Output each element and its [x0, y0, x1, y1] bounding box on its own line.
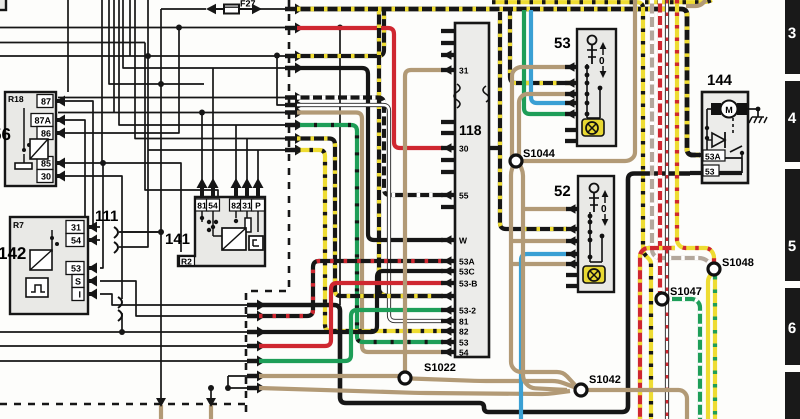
switch 52 box: [578, 176, 614, 292]
wire R7-S east: [100, 281, 251, 316]
switch 52 pin stub y241: [566, 239, 578, 243]
unit 118 pin arrow y296: [443, 291, 452, 301]
wire yellow/black top rail: [492, 2, 651, 419]
relay R2 pin 54: [207, 178, 220, 211]
switch 53 pin stub y94: [565, 92, 577, 96]
junction x211: [208, 385, 214, 391]
relay R2 pin P: [252, 178, 265, 211]
wire column x145: [145, 43, 218, 198]
switch 52 contact column: [588, 212, 605, 262]
harness boundary dashed bottom: [0, 403, 246, 406]
connector pair lower-left arc1: [118, 297, 122, 308]
svg-text:P: P: [255, 201, 261, 211]
connector arrow tan: [285, 107, 304, 118]
wire green feed: [119, 0, 291, 125]
unit 118 pin stub y310: [441, 308, 455, 312]
switch 52 pin arrow y209: [567, 204, 576, 214]
switch 52 lamp: [583, 266, 605, 283]
wire yb feed: [135, 0, 291, 139]
relay 56 pin 85: [37, 157, 65, 170]
motor 144 park switch: [730, 146, 744, 158]
wire 84 rail: [109, 0, 204, 84]
wire tan from pin31: [405, 70, 443, 371]
svg-text:82: 82: [459, 327, 469, 337]
wire yellow/black top exit: [645, 0, 712, 2]
svg-text:53-B: 53-B: [459, 279, 477, 289]
connector 111 arc upper: [114, 227, 118, 238]
unit 118 pin label 53-B: [459, 279, 477, 289]
svg-text:53A: 53A: [705, 152, 721, 162]
unit 118 pin stub y70: [441, 68, 455, 72]
current track number 3: [788, 25, 796, 42]
wire fuse to connector: [253, 8, 291, 10]
arrow into sleeve left: [156, 398, 166, 407]
switch 52 pin stub y209: [566, 207, 578, 211]
node S1042: [575, 374, 621, 396]
connector arrow green: [285, 120, 304, 131]
wire 97 rail: [58, 97, 291, 99]
sleeve tan right: [209, 405, 213, 419]
unit 118 pin arrow y310: [443, 305, 452, 315]
switch 52 pin stub y286: [566, 284, 578, 288]
unit 118 pin stub y133: [441, 131, 455, 135]
wire yellow/green from S1048: [713, 276, 717, 419]
wire white to pin81: [297, 105, 443, 321]
switch 52 pin stub y229: [566, 227, 578, 231]
switch 53 pin arrow y83: [566, 78, 575, 88]
connector arrow red2: [247, 341, 266, 352]
wire black to pinW: [297, 68, 443, 240]
wire tan bracket: [227, 376, 229, 388]
unit 118 pin label 55: [459, 191, 469, 201]
svg-text:6: 6: [788, 320, 796, 337]
wire tan branch 52 pin1: [523, 207, 567, 211]
wire R18-30 down: [64, 176, 122, 299]
relay 56 pin 87A: [31, 114, 65, 127]
motor 144 M symbol: [721, 101, 738, 118]
wire tan branch 52 pin2: [511, 239, 567, 243]
wire black lower loop: [259, 174, 690, 413]
relay R2 pin 82: [230, 178, 243, 211]
wire drop to sleeve x211: [210, 388, 212, 399]
switch 53 pin arrow y103: [566, 98, 575, 108]
unit 118 pin stub y331: [441, 329, 455, 333]
svg-text:31: 31: [71, 223, 81, 233]
switch 53 lamp: [582, 119, 604, 136]
junction rail56/x277: [274, 53, 280, 59]
svg-text:54: 54: [71, 236, 81, 246]
wire tan 52 feed: [511, 262, 567, 266]
relay 56 box: [5, 92, 56, 186]
switch 53 pin stub y67: [565, 65, 577, 69]
wire x103 to R7-53: [100, 163, 103, 268]
relay R18 designator: [8, 94, 24, 104]
switch 52 selector arrows: [601, 190, 608, 226]
switch 52 pin arrow y241: [567, 236, 576, 246]
unit 118 pin arrow y321: [443, 316, 452, 326]
harness boundary dashed top: [246, 0, 289, 419]
switch 53 box: [577, 29, 616, 146]
svg-text:S1048: S1048: [722, 257, 754, 269]
wire black/yellow 52 feed: [500, 12, 567, 229]
wire black/yellow to pin-mid: [297, 139, 443, 297]
unit 118 right stub y148: [489, 146, 500, 150]
node S1048: [708, 257, 754, 275]
wire column x130: [129, 0, 131, 56]
switch 53 pin stub y114: [565, 112, 577, 116]
wire R2-81 riser: [201, 113, 203, 183]
switch 52 pin stub y275: [566, 273, 578, 277]
wire red to pin30: [297, 28, 443, 148]
wire tan lower to S1042: [259, 388, 570, 394]
unit 118 pin stub y55: [441, 53, 455, 57]
component 53 label: [554, 35, 571, 52]
wire column x102: [101, 0, 103, 163]
unit 118 squiggle right: [483, 86, 489, 102]
switch 53 pin stub y83: [565, 81, 577, 85]
motor 144 pin 53 wire: [690, 158, 742, 173]
current track bar: [785, 0, 800, 419]
wire R7-I east: [100, 294, 251, 305]
connector pair lower-left arc2: [118, 310, 122, 321]
svg-text:R2: R2: [181, 257, 192, 267]
unit 118 pin stub y283: [441, 281, 455, 285]
wire 332 rail: [0, 331, 251, 333]
wire tan S1044 to 53 pin3: [519, 94, 570, 158]
wire black to pin53C: [259, 271, 443, 332]
junction 85 node: [100, 160, 106, 166]
switch 52 pin arrow y264: [567, 259, 576, 269]
unit 118 pin stub y271: [441, 269, 455, 273]
svg-text:4: 4: [788, 110, 797, 127]
wire fuse feed: [161, 8, 206, 10]
connector arrow green2: [247, 356, 266, 367]
switch 52 pin stub y264: [566, 262, 578, 266]
wire green/black to pin53: [297, 125, 443, 342]
connector arrow yb3: [285, 133, 304, 144]
wire yellow/red branch to bottom: [640, 248, 675, 419]
node S1047: [656, 286, 702, 305]
svg-text:56: 56: [0, 125, 11, 144]
wire x122 lower: [121, 313, 123, 332]
unit 118 pin label 31: [459, 66, 469, 76]
ground symbol 144: [749, 109, 767, 123]
wire tan to pin54: [297, 113, 443, 353]
wire tan2 feed: [228, 387, 251, 389]
unit 118 pin arrow y331: [443, 326, 452, 336]
fuse left plug arrow: [206, 4, 224, 14]
switch 53 pin stub y130: [565, 128, 577, 132]
svg-text:S1044: S1044: [523, 148, 556, 160]
wire 361 rail: [0, 360, 251, 362]
wire R2-54 riser: [212, 68, 214, 182]
unit 118 pin stub y296: [441, 294, 455, 298]
wire blue to 53 pin4: [531, 10, 570, 103]
wire white feed: [277, 56, 291, 106]
wire R2-P riser: [257, 150, 259, 182]
unit 118 pin arrow y240: [443, 235, 452, 245]
relay 56 pin 86: [37, 127, 65, 140]
junction x161/233: [158, 229, 164, 235]
fuse F27: [224, 5, 239, 14]
wire arc2 riser x148: [123, 0, 148, 247]
wire riser x340: [339, 28, 341, 306]
wire column x114: [113, 0, 115, 113]
unit 118 pin arrow y283: [443, 278, 452, 288]
unit 118 squiggle left: [454, 84, 460, 108]
svg-text:53A: 53A: [459, 257, 475, 267]
svg-text:30: 30: [459, 144, 469, 154]
svg-text:53: 53: [71, 264, 81, 274]
unit 118 pin arrow y342: [443, 337, 452, 347]
svg-text:31: 31: [242, 201, 252, 211]
relay 56 internals: [15, 108, 48, 169]
unit 118 pin stub y195: [441, 193, 455, 197]
wire green to 53 pin5: [524, 10, 570, 114]
connector arrow yellow: [285, 145, 304, 156]
unit 118 pin label 53-2: [459, 306, 476, 316]
svg-text:52: 52: [554, 183, 571, 200]
wire red to pin53-B: [259, 283, 443, 346]
relay 142 pin 31: [66, 221, 97, 234]
relay R2 designator: [180, 257, 195, 267]
component 141 label: [165, 231, 190, 248]
arrow into sleeve right: [206, 398, 216, 407]
sleeve tan left: [159, 405, 163, 419]
wire R18-86 riser: [64, 28, 179, 134]
wire R18-87A to R7-54: [64, 120, 100, 240]
svg-text:0: 0: [601, 204, 607, 215]
svg-text:111: 111: [95, 208, 118, 225]
connector arrow black: [285, 63, 304, 74]
wire R18-87 to R7-31: [64, 101, 100, 227]
svg-text:S1022: S1022: [424, 362, 456, 374]
wire yellow/black riser from 56: [297, 9, 384, 56]
wire tan top exit: [686, 0, 706, 6]
unit 118 pin stub y261: [441, 259, 455, 263]
relay R2 internals: [200, 211, 263, 250]
unit 118 pin arrow y55: [443, 50, 452, 60]
svg-text:R7: R7: [13, 220, 24, 230]
unit 118 pin label 54: [459, 348, 469, 358]
svg-text:31: 31: [459, 66, 469, 76]
wire green to pin53-2: [259, 310, 443, 361]
svg-text:86: 86: [41, 129, 51, 139]
unit 118 pin label 53C: [459, 267, 475, 277]
svg-text:53C: 53C: [459, 267, 475, 277]
control unit 118 label: [459, 122, 482, 138]
unit 118 pin stub y207: [441, 205, 455, 209]
wire grey/white to S1048: [652, 0, 712, 265]
wire tan S1042 east drop: [588, 390, 687, 419]
unit 118 pin arrow y271: [443, 266, 452, 276]
component 56 number: [0, 125, 11, 144]
connector arrow tan1: [247, 371, 266, 382]
switch 53 pin stub y141: [565, 139, 577, 143]
component 142 number: [0, 244, 26, 263]
wire tan S1044 west drop: [511, 166, 575, 385]
switch 52 pin stub y254: [566, 252, 578, 256]
switch 53 pin arrow y94: [566, 89, 575, 99]
unit 118 pin stub y342: [441, 340, 455, 344]
connector arrow black2: [247, 327, 266, 338]
svg-text:0: 0: [599, 56, 605, 67]
wire tan1 feed: [228, 375, 251, 377]
wire tan S1044 north: [512, 67, 570, 158]
connector arrow blackred: [247, 311, 266, 322]
svg-text:81: 81: [459, 317, 469, 327]
wire black/white to pin55: [297, 98, 443, 196]
junction rail28/x179: [176, 25, 182, 31]
connector arrow tan2: [247, 383, 266, 394]
svg-text:85: 85: [41, 159, 51, 169]
svg-text:S: S: [75, 277, 81, 287]
wire column x68: [67, 0, 69, 92]
motor 144 linkage dashes: [732, 118, 734, 133]
junction 81/tan rail: [199, 110, 205, 116]
node S1022: [399, 362, 456, 384]
relay 142 pin I: [72, 288, 97, 301]
wire fuse drop x161: [160, 9, 162, 400]
svg-text:R18: R18: [8, 94, 24, 104]
unit 118 pin label 82: [459, 327, 469, 337]
wire blue 52 to bottom: [521, 254, 567, 419]
unit 118 pin stub y148: [441, 146, 455, 150]
unit 118 pin arrow y70: [443, 65, 452, 75]
relay 56 pin 30: [37, 170, 65, 183]
svg-text:53-2: 53-2: [459, 306, 476, 316]
svg-text:141: 141: [165, 231, 190, 248]
switch 53 pin arrow y114: [566, 109, 575, 119]
svg-text:82: 82: [231, 201, 241, 211]
current track number 6: [788, 320, 796, 337]
motor 144 pin 53A wire: [702, 157, 742, 159]
relay 56 pin 87: [37, 95, 65, 108]
wire R2-82 riser: [235, 125, 237, 182]
switch 53 pin arrow y67: [566, 62, 575, 72]
unit 118 pin label 81: [459, 317, 469, 327]
connector arrow yb-top: [285, 4, 304, 15]
unit 118 pin stub y172: [441, 170, 455, 174]
svg-text:55: 55: [459, 191, 469, 201]
switch 52 pin arrow y229: [567, 224, 576, 234]
wire arc upper lead: [119, 231, 158, 233]
switch 53 knob: [587, 36, 597, 65]
motor 144 ground lead: [747, 107, 760, 112]
wire 42 rail: [0, 42, 145, 44]
wire red/white to S1047: [658, 0, 662, 293]
unit 118 pin arrow y352: [443, 347, 452, 357]
relay 142 box: [10, 217, 88, 314]
component 52 label: [554, 183, 571, 200]
connector 111 arc lower: [114, 242, 118, 253]
node S1044: [510, 148, 556, 167]
wire R18-85 east: [64, 163, 181, 252]
wire yellow feed: [148, 149, 291, 151]
switch 52 pin arrow y254: [567, 249, 576, 259]
unit 118 pin arrow y261: [443, 256, 452, 266]
unit 118 pin label 53A: [459, 257, 475, 267]
relay 142 internals: [26, 230, 59, 297]
junction rail84/x161: [158, 81, 164, 87]
svg-text:142: 142: [0, 244, 26, 263]
wire yellow from S1048: [708, 274, 711, 419]
current track number 4: [788, 110, 797, 127]
motor 144 pin label 53A: [703, 150, 725, 162]
svg-text:30: 30: [41, 172, 51, 182]
wire yellow/red to S1048: [677, 0, 714, 262]
svg-text:S1042: S1042: [589, 374, 621, 386]
wire R2-31 riser: [246, 139, 248, 183]
wire tan S1044 east to top: [522, 0, 635, 161]
corner component fragment: [0, 0, 6, 10]
wire 111 to 141 junction: [120, 231, 161, 233]
motor 144 pin 53A stub: [690, 153, 702, 157]
wire tan via S1022 to S1042: [259, 374, 399, 378]
unit 118 pin stub y240: [441, 238, 455, 242]
motor 144 internal left drop: [705, 109, 711, 155]
component 144 label: [707, 72, 733, 89]
unit 118 pin stub y43: [441, 41, 455, 45]
svg-text:53: 53: [705, 167, 715, 177]
unit 118 pin stub y321: [441, 319, 455, 323]
wire tan feed rail: [58, 112, 291, 114]
svg-text:87A: 87A: [34, 116, 51, 126]
current track number 5: [788, 238, 796, 255]
switch 53 contact column: [585, 64, 603, 118]
connector arrow white: [285, 100, 304, 111]
wire black/yellow fan drop: [379, 11, 443, 296]
junction rail56/x148: [145, 53, 151, 59]
svg-text:54: 54: [459, 348, 469, 358]
wire 68 rail: [123, 0, 291, 68]
svg-text:118: 118: [459, 122, 482, 138]
diode 144: [707, 132, 725, 148]
relay R2 pin 31: [241, 178, 254, 211]
svg-text:53: 53: [459, 338, 469, 348]
unit 118 pin arrow y148: [443, 143, 452, 153]
relay R2 box outline: [178, 197, 265, 266]
svg-text:87: 87: [41, 97, 51, 107]
connector arrow bw: [285, 92, 304, 103]
svg-text:5: 5: [788, 238, 796, 255]
unit 118 pin label 53: [459, 338, 469, 348]
wire black/red to pin53A: [259, 261, 443, 316]
wire arc lower lead: [119, 246, 123, 248]
wire yellow/black to pin82: [297, 150, 443, 331]
svg-text:53: 53: [554, 35, 571, 52]
unit 118 pin stub y122: [441, 120, 455, 124]
wire yellow/black to 53 pin2: [510, 11, 570, 83]
svg-text:81: 81: [197, 201, 207, 211]
svg-text:I: I: [78, 290, 81, 300]
svg-text:M: M: [725, 105, 733, 115]
relay R2 pin 81: [196, 178, 209, 211]
svg-text:144: 144: [707, 72, 733, 89]
motor 144 pin label 53: [703, 165, 719, 177]
wire 346 rail: [0, 345, 251, 347]
motor 144 brush right: [737, 103, 747, 115]
control unit 118 box: [455, 23, 489, 357]
switch 52 knob: [589, 184, 599, 213]
fuse F27 label: [240, 0, 256, 9]
wire white/red full drop: [665, 0, 669, 419]
svg-text:54: 54: [208, 201, 218, 211]
connector arrow black-low: [247, 300, 266, 311]
junction tan split: [225, 385, 231, 391]
wire tan S1044 east drop: [520, 165, 567, 390]
wire 56 rail: [0, 55, 291, 57]
